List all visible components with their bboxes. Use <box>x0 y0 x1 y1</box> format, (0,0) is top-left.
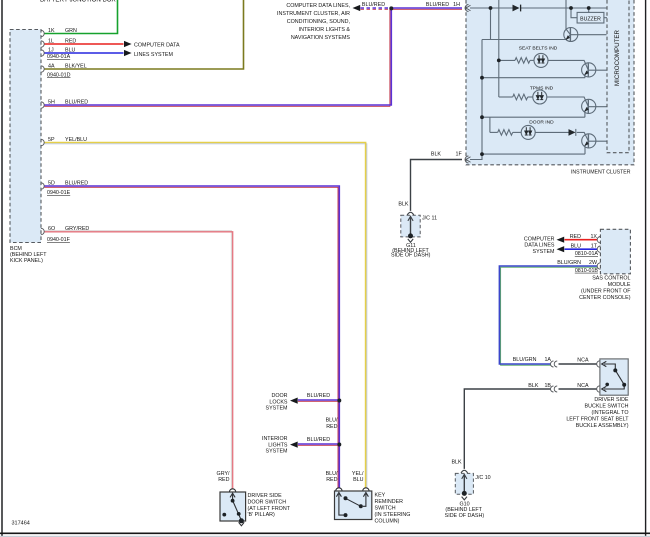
svg-text:DRIVER SIDE: DRIVER SIDE <box>248 493 283 499</box>
svg-text:DRIVER SIDE: DRIVER SIDE <box>594 397 629 403</box>
svg-text:DOOR IND: DOOR IND <box>529 119 554 125</box>
svg-text:0940-01F: 0940-01F <box>47 237 71 243</box>
svg-text:GRY/: GRY/ <box>217 471 230 477</box>
svg-text:'B' PILLAR): 'B' PILLAR) <box>248 512 276 518</box>
svg-text:TPMS IND: TPMS IND <box>530 85 554 91</box>
svg-text:1L: 1L <box>48 39 54 45</box>
svg-text:GRN: GRN <box>65 28 77 34</box>
svg-text:5H: 5H <box>48 100 55 106</box>
svg-text:BLU/RED: BLU/RED <box>307 437 330 443</box>
svg-text:0940-01D: 0940-01D <box>47 72 71 78</box>
svg-text:317464: 317464 <box>12 521 30 527</box>
svg-text:BLK: BLK <box>431 151 442 157</box>
svg-text:INSTRUMENT CLUSTER, AIR: INSTRUMENT CLUSTER, AIR <box>277 11 350 17</box>
svg-text:BLK/YEL: BLK/YEL <box>65 64 87 70</box>
svg-text:BCM: BCM <box>10 246 22 252</box>
svg-text:(INTEGRAL TO: (INTEGRAL TO <box>591 410 628 416</box>
svg-text:0810-01A: 0810-01A <box>575 251 599 257</box>
svg-text:1X: 1X <box>590 234 597 240</box>
svg-text:INTERIOR: INTERIOR <box>262 436 288 442</box>
svg-text:BLU/RED: BLU/RED <box>65 100 88 106</box>
svg-text:NAVIGATION SYSTEMS: NAVIGATION SYSTEMS <box>291 35 351 41</box>
svg-text:0810-01B: 0810-01B <box>575 268 599 274</box>
svg-text:1J: 1J <box>48 48 54 54</box>
svg-text:BLU/GRN: BLU/GRN <box>513 357 537 363</box>
svg-text:SYSTEM: SYSTEM <box>533 249 556 255</box>
svg-text:(UNDER FRONT OF: (UNDER FRONT OF <box>581 289 631 295</box>
svg-text:LIGHTS: LIGHTS <box>268 442 288 448</box>
svg-text:MICROCOMPUTER: MICROCOMPUTER <box>614 29 621 86</box>
svg-text:1T: 1T <box>591 244 598 250</box>
svg-text:INTERIOR LIGHTS &: INTERIOR LIGHTS & <box>299 27 351 33</box>
svg-text:SYSTEM: SYSTEM <box>266 449 289 455</box>
svg-text:BLU/: BLU/ <box>326 471 338 477</box>
svg-text:BLU/RED: BLU/RED <box>307 393 330 399</box>
svg-text:REMINDER: REMINDER <box>375 499 404 505</box>
svg-text:BLU/RED: BLU/RED <box>362 2 385 8</box>
svg-text:6O: 6O <box>48 226 55 232</box>
svg-text:BUZZER: BUZZER <box>580 16 601 22</box>
svg-text:BLU: BLU <box>571 244 582 250</box>
svg-text:YEL/: YEL/ <box>352 471 364 477</box>
svg-text:(IN STEERING: (IN STEERING <box>375 512 411 518</box>
svg-text:1B: 1B <box>544 383 551 389</box>
svg-text:DOOR: DOOR <box>271 393 287 399</box>
svg-text:0940-01A: 0940-01A <box>47 54 71 60</box>
svg-text:1A: 1A <box>544 357 551 363</box>
svg-text:YEL/BLU: YEL/BLU <box>65 137 87 143</box>
svg-text:J/C 11: J/C 11 <box>422 216 437 222</box>
svg-text:BLU: BLU <box>65 48 76 54</box>
svg-text:BATTERY JUNCTION BOX: BATTERY JUNCTION BOX <box>40 0 116 3</box>
svg-text:NCA: NCA <box>577 383 589 389</box>
svg-text:LEFT FRONT SEAT BELT: LEFT FRONT SEAT BELT <box>566 417 629 423</box>
svg-text:CENTER CONSOLE): CENTER CONSOLE) <box>579 295 631 301</box>
svg-text:RED: RED <box>218 477 229 483</box>
svg-text:BLU: BLU <box>353 477 364 483</box>
svg-text:1H: 1H <box>453 2 460 8</box>
svg-text:BLK: BLK <box>398 202 409 208</box>
svg-text:INSTRUMENT CLUSTER: INSTRUMENT CLUSTER <box>571 170 631 176</box>
svg-text:BLU/GRN: BLU/GRN <box>557 260 581 266</box>
svg-text:RED: RED <box>326 424 337 430</box>
svg-text:(BEHIND LEFT: (BEHIND LEFT <box>10 252 47 258</box>
svg-text:BLU/RED: BLU/RED <box>65 181 88 187</box>
svg-text:SAS CONTROL: SAS CONTROL <box>592 276 630 282</box>
svg-text:SEAT BELTS IND: SEAT BELTS IND <box>519 45 558 51</box>
svg-text:COMPUTER: COMPUTER <box>524 237 555 243</box>
svg-text:DOOR SWITCH: DOOR SWITCH <box>248 500 287 506</box>
svg-text:BUCKLE SWITCH: BUCKLE SWITCH <box>585 404 629 410</box>
svg-text:J/C 10: J/C 10 <box>475 475 490 481</box>
svg-text:NCA: NCA <box>577 357 589 363</box>
svg-text:4A: 4A <box>48 64 55 70</box>
svg-text:BUCKLE ASSEMBLY): BUCKLE ASSEMBLY) <box>576 423 629 429</box>
svg-text:KEY: KEY <box>375 493 386 499</box>
svg-text:DATA LINES: DATA LINES <box>524 243 555 249</box>
svg-text:BLK: BLK <box>528 383 539 389</box>
svg-text:SWITCH: SWITCH <box>375 506 396 512</box>
svg-text:RED: RED <box>65 39 76 45</box>
svg-text:RED: RED <box>570 234 581 240</box>
svg-text:CONDITIONING, SOUND,: CONDITIONING, SOUND, <box>287 19 350 25</box>
svg-text:KICK PANEL): KICK PANEL) <box>10 258 43 264</box>
svg-text:1F: 1F <box>456 152 463 158</box>
svg-text:SIDE OF DASH): SIDE OF DASH) <box>391 253 431 259</box>
svg-text:(AT LEFT FRONT: (AT LEFT FRONT <box>248 506 291 512</box>
svg-text:SYSTEM: SYSTEM <box>266 406 289 412</box>
svg-text:COMPUTER DATA LINES,: COMPUTER DATA LINES, <box>286 3 350 9</box>
svg-text:LINES SYSTEM: LINES SYSTEM <box>134 52 173 58</box>
svg-text:MODULE: MODULE <box>608 282 631 288</box>
svg-text:RED: RED <box>326 477 337 483</box>
svg-text:5D: 5D <box>48 181 55 187</box>
svg-text:5P: 5P <box>48 137 55 143</box>
svg-text:COLUMN): COLUMN) <box>375 519 400 525</box>
svg-text:COMPUTER DATA: COMPUTER DATA <box>134 43 180 49</box>
svg-text:SIDE OF DASH): SIDE OF DASH) <box>445 513 485 519</box>
svg-text:LOCKS: LOCKS <box>269 399 288 405</box>
svg-text:GRY/RED: GRY/RED <box>65 226 89 232</box>
svg-text:BLU/RED: BLU/RED <box>426 2 449 8</box>
svg-text:0940-01E: 0940-01E <box>47 190 71 196</box>
svg-text:1K: 1K <box>48 28 55 34</box>
svg-text:BLK: BLK <box>451 459 462 465</box>
svg-text:2W: 2W <box>589 260 598 266</box>
svg-text:BLU/: BLU/ <box>326 418 338 424</box>
